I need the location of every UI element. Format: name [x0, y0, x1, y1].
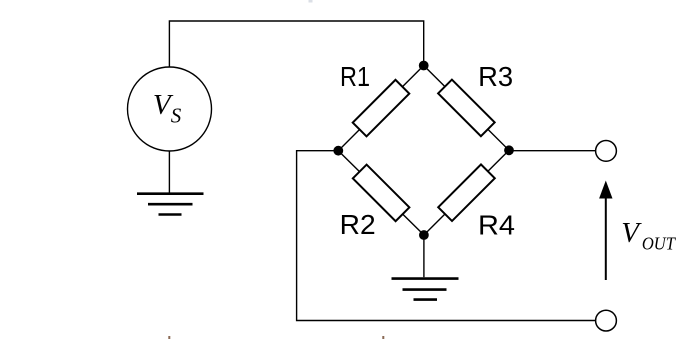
resistor R3 [438, 80, 495, 137]
wire bridge arm bottom-right [424, 150, 509, 235]
svg-text:OUT: OUT [642, 233, 677, 253]
wire VS bottom to ground [168, 151, 170, 193]
svg-text:R2: R2 [340, 209, 376, 240]
wire bridge arm bottom-left [338, 151, 424, 235]
label VOUT [621, 217, 677, 254]
wire left node to bottom terminal [297, 151, 596, 321]
wire bridge arm top-right [424, 66, 509, 151]
ground (under VS) [137, 194, 204, 215]
terminal output top [596, 141, 617, 162]
arrow VOUT [599, 181, 612, 281]
node left [333, 146, 343, 156]
speck top (cropped text artifact) [309, 0, 313, 3]
resistor R1 [353, 80, 410, 137]
voltage source VS [128, 67, 212, 151]
node right [504, 145, 514, 155]
node top [419, 61, 429, 71]
wire bridge arm top-left [338, 66, 423, 151]
resistor R2 [353, 165, 410, 222]
svg-text:R1: R1 [340, 61, 370, 92]
speck bottom right (cropped text artifact) [382, 336, 384, 339]
wire bottom node to ground [423, 235, 425, 277]
resistor R4 [438, 164, 495, 221]
svg-text:R4: R4 [478, 210, 515, 241]
svg-text:R3: R3 [478, 61, 513, 92]
wire right node to output terminal [509, 150, 596, 152]
ground (under bridge) [392, 279, 459, 300]
speck bottom left (cropped text artifact) [168, 336, 170, 339]
terminal output bottom [596, 310, 617, 331]
wire top from VS to bridge top node [169, 21, 423, 68]
node bottom [419, 230, 429, 240]
svg-text:S: S [171, 104, 182, 128]
